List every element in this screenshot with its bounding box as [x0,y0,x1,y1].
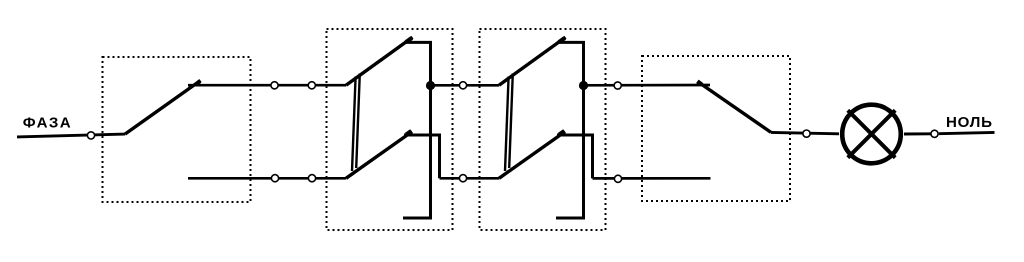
terminal between S3 and S4 top [614,82,621,89]
enclosure intermediate switch S3 (dotted box) [480,29,606,230]
wire top rail segment 2 [431,84,500,87]
lamp HL1 cross stroke 2 [848,110,895,157]
net label НОЛЬ (neutral) [946,114,993,131]
svg-text:НОЛЬ: НОЛЬ [946,114,993,131]
wire S2 lower link down to bottom rail [404,135,440,178]
wire S2 top link and cross-down wire with hook [403,42,431,218]
wire lamp lead left [771,132,839,133]
wire S2 lower moving arm [346,131,412,178]
wire bottom rail segment 3 (open contact of S4) [593,177,711,180]
terminal S1 top output [271,82,278,89]
wire S3 upper moving arm [499,37,566,85]
svg-text:ФАЗА: ФАЗА [23,114,72,131]
wire S3 lower link down to bottom rail [557,135,593,178]
terminal S1 bottom output [271,175,278,182]
wire S3 lower moving arm [499,131,565,178]
terminal between S2 and S3 top [459,82,466,89]
wire neutral lead-out [939,132,995,133]
wire S2 mechanical coupler double-line [352,73,360,171]
terminal S2 top input [308,82,315,89]
wire S4 moving arm [697,81,771,132]
net label ФАЗА (phase) [23,114,72,131]
terminal between S2 and S3 bottom [459,175,466,182]
wire top rail segment 3 [584,84,711,87]
enclosure intermediate switch S2 (dotted box) [327,29,453,230]
terminal X1 phase input [87,132,94,139]
wire S3 mechanical coupler double-line [505,73,513,171]
junction dot S3 output node [579,81,588,90]
terminal S4 output to lamp [803,130,810,137]
terminal lamp to neutral [931,130,938,137]
wire bottom rail segment 1 [188,177,346,180]
wire S1 moving arm [125,81,201,135]
wire bottom rail segment 2 [440,177,500,180]
wire phase lead-in [17,134,125,137]
enclosure switch S4 (dotted box) [642,56,790,201]
lamp HL1 cross stroke 1 [848,110,895,157]
terminal between S3 and S4 bottom [614,175,621,182]
lamp HL1 circle [842,105,901,164]
terminal S2 bottom input [308,175,315,182]
junction dot S2 output node [426,81,435,90]
wire S3 top link and cross-down wire with hook [556,42,584,218]
enclosure switch S1 (dotted box) [103,57,251,202]
wire lamp lead right [904,132,931,135]
wire top rail segment 1 [188,84,346,87]
wire S2 upper moving arm [346,37,413,85]
